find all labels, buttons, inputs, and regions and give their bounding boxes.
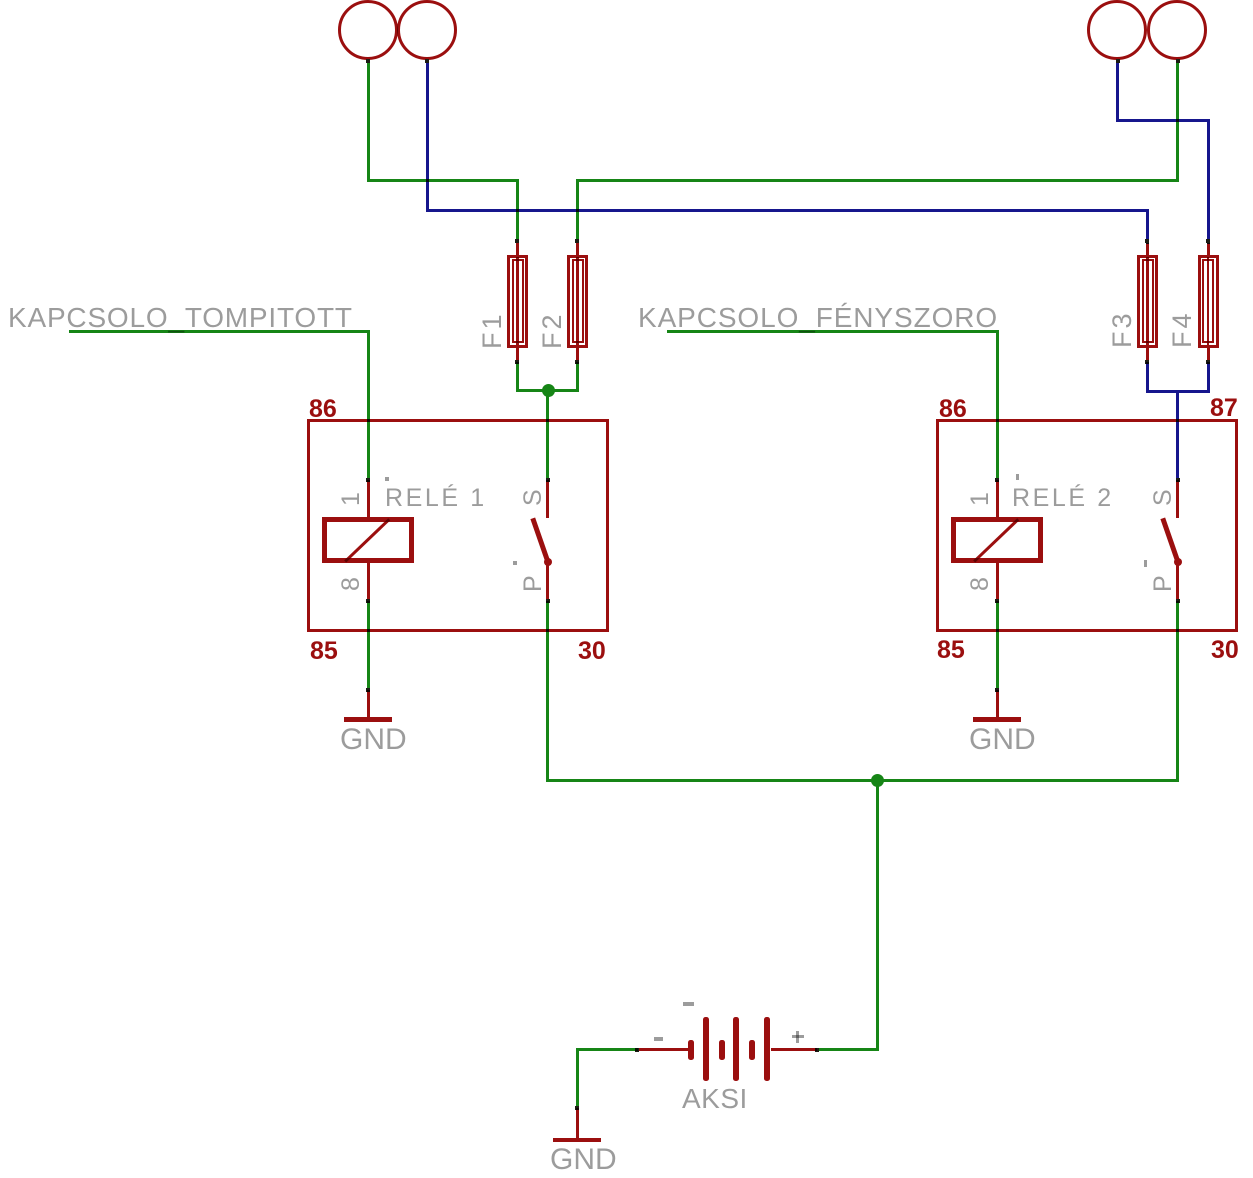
battery plus sign bbox=[792, 1035, 804, 1039]
pin dot F4 bottom bbox=[1206, 360, 1210, 364]
relay 1 pin name S bbox=[521, 489, 546, 506]
pin dot GND2 bbox=[995, 688, 999, 692]
ground GND (relay 1) label bbox=[340, 725, 407, 755]
relay 1 pin name P bbox=[521, 575, 546, 592]
relay 1 pin name 8 bbox=[339, 577, 364, 591]
relay 1 P pin (red stub) bbox=[546, 562, 549, 600]
relay 1 switch blade bbox=[531, 518, 550, 563]
battery minus sign (pin side) bbox=[654, 1037, 663, 1041]
lamp 4 (right headlight, right bulb) bbox=[1147, 0, 1207, 60]
battery AKSI plate long 3 bbox=[764, 1017, 770, 1081]
wire lamp4 down (green net to F2) bbox=[1176, 60, 1179, 182]
relay 2 pin name 8 bbox=[968, 577, 993, 591]
fuse F2 bottom pin bbox=[576, 348, 579, 362]
relay 1 name origin dot bbox=[385, 477, 389, 481]
wire net KAPCSOLO_TOMPITOTT horizontal bbox=[69, 330, 367, 333]
relay 2 P name tick bbox=[1144, 560, 1147, 567]
relay 2 coil pin 8 (red stub) bbox=[996, 563, 999, 600]
junction dot F1/F2 bbox=[542, 384, 555, 397]
ground GND (relay 2) label bbox=[969, 725, 1036, 755]
battery AKSI minus pin bbox=[637, 1048, 688, 1051]
relay 1 pin label 30 bbox=[578, 639, 606, 664]
wire F1 bottom to junction bbox=[516, 362, 519, 389]
relay 2 name RELÉ 2 bbox=[1012, 486, 1114, 511]
lamp 2 (left headlight, right bulb) bbox=[397, 0, 457, 60]
pin dot F1 bottom bbox=[515, 360, 519, 364]
pin dot lamp3 bottom bbox=[1116, 59, 1120, 63]
pin dot F3 bottom bbox=[1145, 360, 1149, 364]
wire F1-F2 bottom horizontal bbox=[516, 389, 579, 392]
ground GND (relay 2) bar bbox=[973, 717, 1021, 722]
net label KAPCSOLO_TOMPITOTT bbox=[8, 304, 353, 332]
ground GND (relay 1) bar bbox=[344, 717, 392, 722]
ground GND (battery) stub bbox=[576, 1108, 579, 1138]
wire lamp3 down (blue net to F4) bbox=[1116, 60, 1119, 122]
relay 2 pin name P bbox=[1151, 575, 1176, 592]
relay 2 pin label 30 bbox=[1211, 638, 1239, 663]
pin dot GND3 bbox=[575, 1106, 579, 1110]
lamp 1 (left headlight, left bulb) bbox=[338, 0, 398, 60]
relay 1 coil pin 1 (red stub) bbox=[367, 480, 370, 517]
wire lamp2 down (blue net to F3) bbox=[426, 60, 429, 212]
fuse F1 top pin bbox=[516, 242, 519, 255]
pin dot F3 top bbox=[1145, 239, 1149, 243]
wire net KAPCSOLO_TOMPITOTT down to relay1 pin 1 bbox=[367, 330, 370, 481]
relay 1 S pin (red stub) bbox=[546, 480, 549, 518]
ground GND (battery) bar bbox=[553, 1138, 601, 1143]
fuse F3 top pin bbox=[1146, 242, 1149, 255]
wire relay2 P down bbox=[1176, 601, 1179, 782]
battery AKSI plate short 2 bbox=[719, 1040, 725, 1060]
relay 1 switch pivot dot bbox=[544, 558, 552, 566]
fuse F1 label bbox=[480, 311, 505, 349]
relay 2 pin label 85 bbox=[937, 638, 965, 663]
fuse F2 top pin bbox=[576, 242, 579, 255]
pin dot F2 bottom bbox=[575, 360, 579, 364]
wire relay1 pin8 to GND bbox=[367, 601, 370, 690]
fuse F1 bottom pin bbox=[516, 348, 519, 362]
junction dot bottom bus bbox=[871, 774, 884, 787]
wire battery GND down bbox=[576, 1048, 579, 1108]
fuse F3 label bbox=[1110, 310, 1135, 348]
relay 2 S pin (red stub) bbox=[1176, 480, 1179, 518]
ground GND (relay 2) stub bbox=[996, 690, 999, 717]
wire battery plus horizontal bbox=[816, 1048, 876, 1051]
fuse F4 top pin bbox=[1207, 242, 1210, 255]
pin dot lamp2 bottom bbox=[425, 59, 429, 63]
fuse F4 bbox=[1198, 255, 1219, 348]
pin dot relay1 pin8 bbox=[366, 599, 370, 603]
relay RELÉ 2 box bbox=[936, 419, 1238, 632]
wire battery minus to GND column bbox=[579, 1048, 639, 1051]
battery minus sign (top) bbox=[683, 1002, 694, 1006]
wire lamp1 down (green net to F1) bbox=[367, 60, 370, 182]
relay 2 pin name 1 bbox=[968, 492, 993, 506]
wire relay2 pin8 to GND bbox=[996, 601, 999, 690]
wire junction down to battery bbox=[876, 782, 879, 1051]
relay 1 coil pin 8 (red stub) bbox=[367, 563, 370, 600]
ground GND (relay 1) stub bbox=[367, 690, 370, 717]
wire bottom horizontal bus bbox=[549, 779, 1176, 782]
relay 1 pin label 85 bbox=[310, 639, 338, 664]
wire F2 bottom to junction bbox=[576, 362, 579, 389]
relay 2 coil diagonal bbox=[973, 518, 1019, 562]
pin dot relay1 P bbox=[546, 599, 550, 603]
battery AKSI plate short 3 bbox=[749, 1040, 755, 1060]
relay 2 coil bbox=[951, 517, 1043, 563]
battery AKSI plus pin bbox=[771, 1048, 818, 1051]
wire F3 bottom down bbox=[1146, 362, 1149, 390]
wire F4 column down to fuse bbox=[1207, 119, 1210, 244]
relay 2 name origin mark bbox=[1016, 474, 1020, 480]
pin dot GND1 bbox=[366, 688, 370, 692]
relay 1 coil diagonal bbox=[344, 518, 390, 562]
relay 2 switch blade bbox=[1161, 518, 1180, 563]
wire lamp1 horizontal to F1 column bbox=[370, 179, 516, 182]
pin dot relay2 pin8 bbox=[995, 599, 999, 603]
wire F2 column down to fuse bbox=[576, 179, 579, 243]
wire lamp3 horizontal to F4 column bbox=[1119, 119, 1207, 122]
fuse F1 bbox=[507, 255, 528, 348]
fuse F4 label bbox=[1170, 310, 1195, 348]
fuse F2 bbox=[567, 255, 588, 348]
relay 1 coil bbox=[322, 517, 414, 563]
relay 2 switch pivot dot bbox=[1174, 558, 1182, 566]
fuse F4 bottom pin bbox=[1207, 348, 1210, 362]
battery AKSI plate long 1 bbox=[703, 1017, 709, 1081]
lamp 3 (right headlight, left bulb) bbox=[1087, 0, 1147, 60]
pin dot lamp4 bottom bbox=[1176, 59, 1180, 63]
relay 2 pin name S bbox=[1151, 489, 1176, 506]
wire relay1 P down bbox=[546, 601, 549, 782]
relay 1 P name dot bbox=[513, 561, 517, 565]
pin dot F4 top bbox=[1206, 239, 1210, 243]
relay 2 P pin (red stub) bbox=[1176, 562, 1179, 600]
fuse F3 bottom pin bbox=[1146, 348, 1149, 362]
wire junction down to relay 1 S pin bbox=[546, 392, 549, 481]
relay 1 pin label 86 bbox=[309, 397, 337, 422]
relay 2 pin label 86 bbox=[939, 397, 967, 422]
pin dot relay2 pin1 bbox=[995, 478, 999, 482]
pin dot battery minus bbox=[635, 1048, 639, 1052]
pin dot relay1 S bbox=[546, 478, 550, 482]
wire down to relay 2 S pin bbox=[1176, 393, 1179, 481]
pin dot battery plus bbox=[815, 1048, 819, 1052]
wire lamp4 long horizontal to F2 column bbox=[579, 179, 1177, 182]
pin dot lamp1 bottom bbox=[366, 59, 370, 63]
wire F4 bottom down bbox=[1207, 362, 1210, 390]
pin dot relay2 S bbox=[1176, 478, 1180, 482]
net label KAPCSOLO_FÉNYSZORO bbox=[638, 304, 998, 332]
relay RELÉ 1 box bbox=[307, 419, 609, 632]
relay 1 name RELÉ 1 bbox=[385, 486, 487, 511]
wire net KAPCSOLO_FÉNYSZORO down to relay2 pin 1 bbox=[996, 330, 999, 481]
relay 1 pin name 1 bbox=[339, 492, 364, 506]
relay 2 coil pin 1 (red stub) bbox=[996, 480, 999, 517]
wire F1 column down to fuse bbox=[516, 179, 519, 243]
wire F3 column down to fuse bbox=[1146, 209, 1149, 244]
battery value label AKSI bbox=[682, 1085, 748, 1113]
wire F3-F4 bottom horizontal bbox=[1146, 390, 1210, 393]
wire net KAPCSOLO_FÉNYSZORO horizontal bbox=[667, 330, 996, 333]
fuse F3 bbox=[1137, 255, 1158, 348]
wire lamp2 long horizontal to F3 column bbox=[429, 209, 1146, 212]
pin dot F2 top bbox=[575, 239, 579, 243]
ground GND (battery) label bbox=[550, 1145, 617, 1175]
pin dot F1 top bbox=[515, 239, 519, 243]
battery AKSI plate long 2 bbox=[733, 1017, 739, 1081]
pin dot relay1 pin1 bbox=[366, 478, 370, 482]
pin dot relay2 P bbox=[1176, 599, 1180, 603]
relay 2 pin label 87 bbox=[1210, 396, 1238, 421]
fuse F2 label bbox=[540, 311, 565, 349]
battery AKSI plate short 1 bbox=[688, 1040, 694, 1060]
